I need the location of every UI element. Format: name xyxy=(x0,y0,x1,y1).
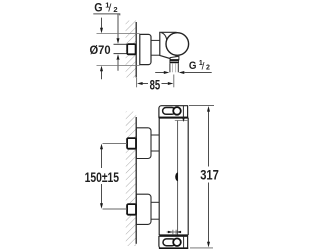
svg-text:2: 2 xyxy=(206,65,210,72)
svg-text:/: / xyxy=(202,61,205,72)
svg-text:Ø70: Ø70 xyxy=(90,43,111,57)
mini outlet dimension arrows (side view bottom) xyxy=(167,230,182,234)
dimension 85 (wall to outlet axis) xyxy=(137,75,174,93)
wall hatch (plan view) xyxy=(126,21,137,78)
wall hatch (side view) xyxy=(126,112,136,247)
thermostat column body (side view) xyxy=(159,118,188,235)
outlet pipe G1/2 (plan view) xyxy=(170,63,178,72)
svg-text:150±15: 150±15 xyxy=(85,169,120,185)
small reference arrow under top cap (side view) xyxy=(175,117,188,122)
safety stop button on column (side view) xyxy=(175,172,178,181)
dimension label G1/2 (supply, top-left) xyxy=(93,0,120,70)
bottom housing cap (side view) xyxy=(159,236,188,248)
valve body bracket (plan view) xyxy=(160,32,176,58)
union square in wall (plan view) xyxy=(127,44,135,54)
outlet collar below handle (plan view) xyxy=(170,56,179,60)
dimension label G1/2 (outlet, plan view) xyxy=(155,60,212,74)
svg-text:317: 317 xyxy=(200,167,219,182)
top housing cap (side view) xyxy=(159,106,188,118)
svg-text:85: 85 xyxy=(150,76,161,92)
supply pipe in wall (plan view) xyxy=(114,44,129,53)
svg-text:G: G xyxy=(189,61,197,72)
neck upper supply to column (side view) xyxy=(151,135,159,151)
svg-text:2: 2 xyxy=(113,5,117,14)
outlet nut (plan view) xyxy=(170,60,179,63)
thermostat handle circle (plan view) xyxy=(166,33,189,56)
dimension Ø70 (flange diameter) xyxy=(90,18,140,80)
wall flange / escutcheon (plan view) xyxy=(140,34,151,64)
wall surface line (side view) xyxy=(135,117,137,244)
escutcheon lower supply (side view) xyxy=(136,194,151,224)
wall surface line (plan view) xyxy=(135,22,137,78)
connection neck flange to body (plan view) xyxy=(152,40,160,55)
svg-text:G: G xyxy=(94,2,102,14)
union square upper supply (side view) xyxy=(127,138,136,149)
column bottom separation line (side view) xyxy=(159,234,188,236)
union square lower supply (side view) xyxy=(127,204,136,215)
neck lower supply to column (side view) xyxy=(151,202,159,219)
escutcheon upper supply (side view) xyxy=(136,128,151,159)
dimension 150±15 (supply spacing) xyxy=(85,143,127,209)
dimension 317 (overall height) xyxy=(189,106,219,248)
